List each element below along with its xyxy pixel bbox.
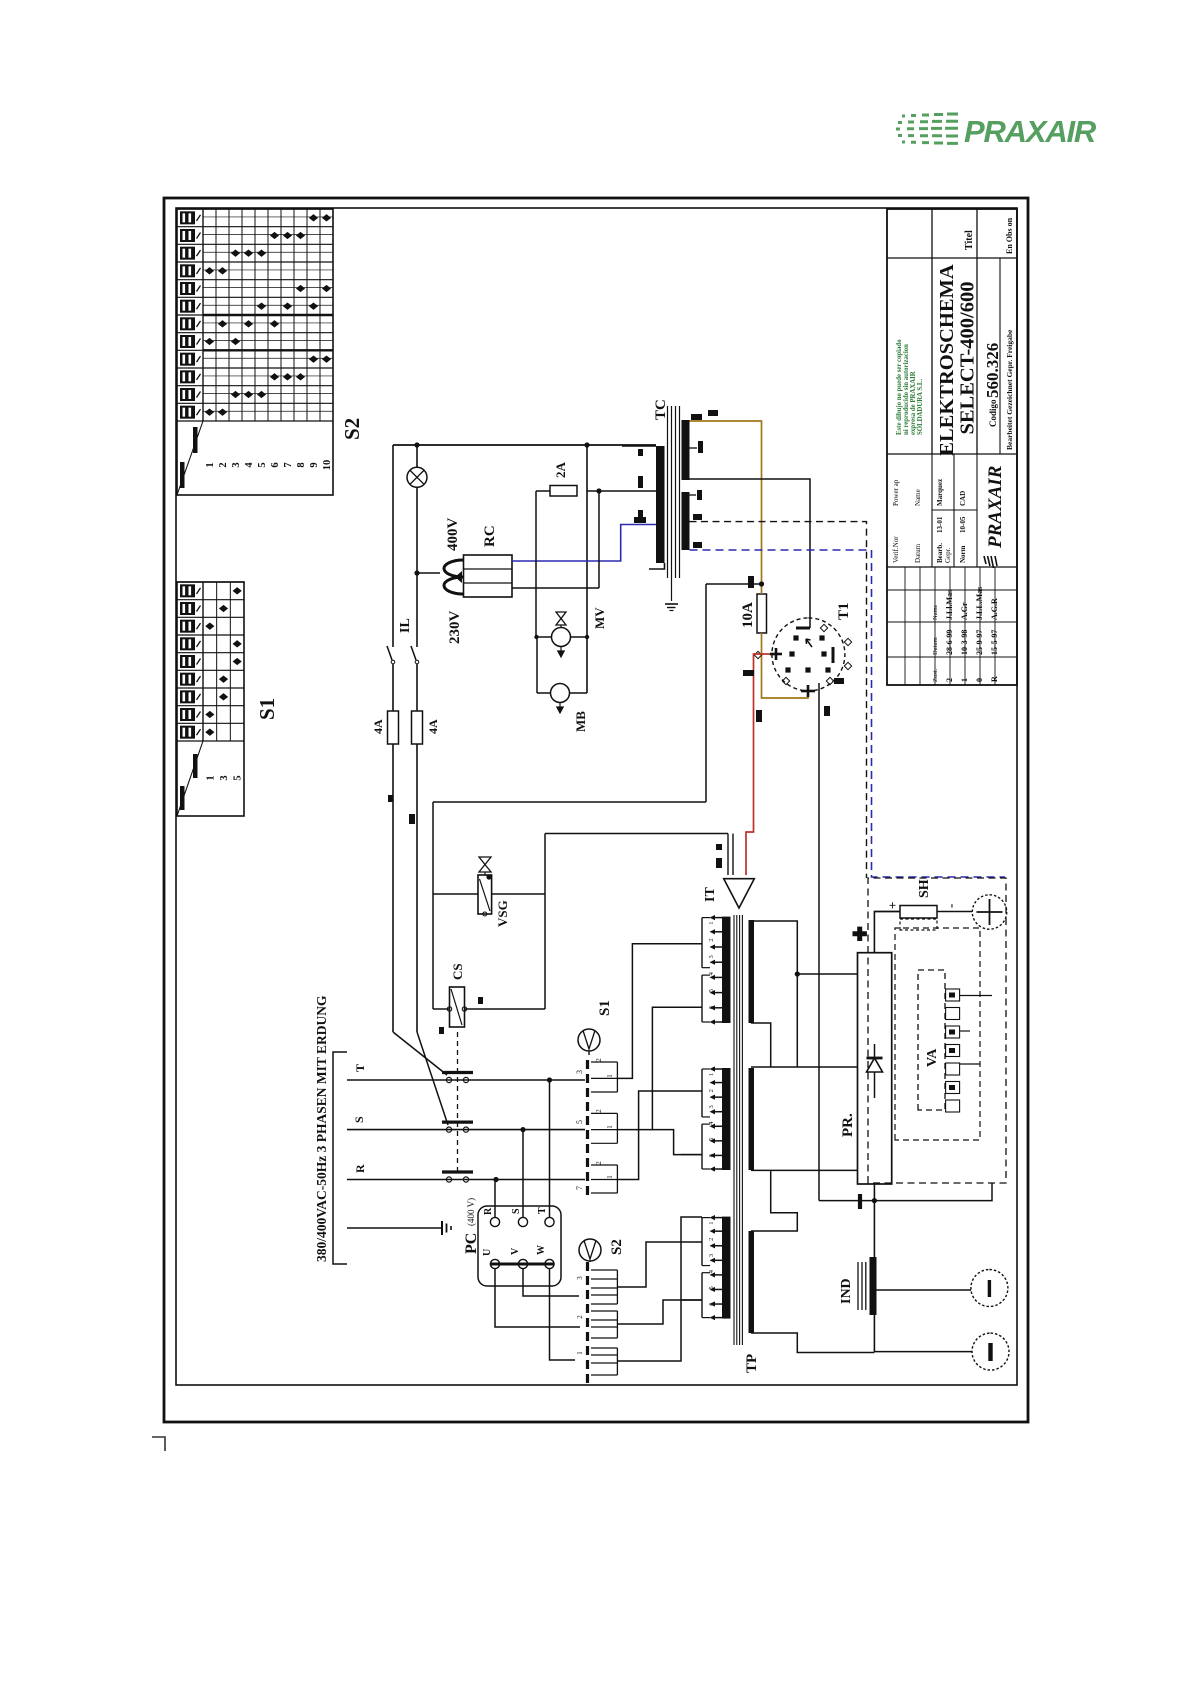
svg-text:13-01: 13-01 [936, 516, 944, 533]
svg-text:560.326: 560.326 [983, 343, 1002, 398]
svg-text:MV: MV [592, 607, 607, 629]
wire to IT vertical [545, 833, 728, 835]
svg-text:3: 3 [708, 1105, 715, 1108]
svg-text:Name: Name [932, 604, 939, 620]
svg-text:S1: S1 [255, 698, 279, 720]
wire through SH [874, 911, 900, 913]
wire 2A to MV line [536, 490, 550, 492]
selector S2 taps group3 [576, 1348, 617, 1375]
switch IL contacts [387, 646, 419, 664]
selector S1 taps phase T [575, 1058, 617, 1092]
svg-text:S1: S1 [597, 1000, 613, 1016]
wire diagonal tap T phase [393, 1032, 447, 1075]
svg-text:5: 5 [575, 1120, 584, 1124]
transformer RC coil arcs [444, 560, 463, 594]
wire link horiz sec2 [796, 974, 798, 1067]
svg-text:A.Gr: A.Gr [960, 602, 969, 620]
dashed enclosure inner [895, 928, 980, 1140]
selector S1 taps phase S [575, 1109, 617, 1144]
junction dots IL rail [414, 442, 419, 447]
connector PC body [478, 1206, 561, 1286]
wire VSG loop bottom to TC junction [705, 584, 707, 802]
S2 table contact symbols row [180, 211, 201, 418]
wire PC-W to S2 [550, 1269, 576, 1360]
svg-text:VSG: VSG [495, 900, 510, 927]
wire S2 out3 long [617, 1217, 702, 1361]
svg-text:Este dibujo no puede ser copia: Este dibujo no puede ser copiado [896, 339, 903, 435]
svg-text:TC: TC [653, 399, 669, 420]
dashed enclosure outer [868, 878, 1006, 1183]
transformer TP primary windings [681, 915, 731, 1320]
svg-text:Marquez: Marquez [936, 479, 944, 506]
title block green note [896, 339, 924, 435]
wire to terminal 2 [874, 1351, 972, 1353]
svg-text:CAD: CAD [959, 491, 967, 506]
wire PR output plus [874, 912, 900, 953]
wire T1 to minus rail [818, 683, 820, 1201]
titleblock PRAXAIR logo [984, 466, 1006, 568]
fuse 10A [757, 594, 767, 633]
svg-text:7: 7 [283, 462, 294, 467]
transformer TC primary winding [649, 446, 665, 569]
drawing outer border frame [164, 198, 1028, 1422]
svg-text:Datum: Datum [932, 637, 939, 655]
svg-text:S2: S2 [340, 418, 364, 440]
S2 table position marks (diamonds) [205, 214, 331, 416]
wire dashed black TC to VA box [690, 522, 867, 878]
T1 pins [754, 624, 851, 697]
svg-text:Bearbeitet Gezeichnet Gepr.: Bearbeitet Gezeichnet Gepr. Freigabe [1005, 329, 1014, 450]
TP primary tap numbers [708, 921, 715, 1305]
svg-text:25-9-97: 25-9-97 [975, 630, 984, 655]
svg-text:Codigo: Codigo [988, 399, 998, 427]
wire PR input 1 [797, 973, 857, 975]
S1 table contact symbols row [180, 584, 201, 738]
wire IL line lower [416, 744, 418, 1032]
svg-text:R: R [483, 1207, 494, 1215]
svg-text:Gepr.: Gepr. [944, 547, 952, 563]
titleblock small cells text [892, 479, 967, 563]
wire PC-U to S2 [495, 1269, 580, 1327]
transformer RC body [464, 555, 513, 597]
wire MB top link [536, 637, 538, 693]
paper corner crop mark bottom left [151, 1434, 171, 1459]
svg-text:Power ap: Power ap [892, 479, 900, 506]
wire sec2 bottom to PR input3 [751, 1169, 858, 1171]
svg-text:1: 1 [606, 1074, 614, 1078]
revision rows text [932, 587, 999, 682]
selector S2 shaft dashed [586, 1262, 589, 1383]
PC pin labels [482, 1207, 548, 1256]
wire sec2-sec3 series link [751, 1170, 797, 1231]
wire S2 out1 to TP group3 A [617, 1242, 702, 1287]
svg-text:Zust.: Zust. [932, 668, 939, 682]
schematic sheet (landscape drawing rotated 90 deg CCW) [160, 196, 1032, 1433]
wire PR output minus [873, 1184, 875, 1201]
PRAXAIR company logo (green, top right) [886, 104, 1116, 156]
svg-text:3: 3 [231, 462, 242, 467]
display VA dashed box [918, 970, 945, 1110]
svg-text:T1: T1 [836, 602, 852, 620]
svg-text:1: 1 [708, 1073, 715, 1076]
wire dashed blue TC to SH [690, 550, 1006, 877]
wire 230V tap vertical [587, 490, 656, 492]
contactor CS main contacts [347, 1073, 473, 1183]
supply bracket [333, 1052, 347, 1264]
TC primary tap 230V [622, 490, 656, 492]
TC sec1 tiny labels [691, 414, 702, 420]
svg-text:230V: 230V [447, 611, 463, 645]
title block grid [887, 209, 1017, 685]
rectifier PR body [858, 953, 892, 1184]
svg-text:Bearb.: Bearb. [936, 543, 944, 563]
thermal switch VSG body [478, 874, 492, 916]
svg-text:2: 2 [708, 938, 715, 941]
shunt SH body [900, 906, 937, 919]
selector S1 taps phase R [575, 1161, 617, 1193]
fuse 2A [550, 486, 577, 497]
wire orange TC to 10A fuse [690, 421, 762, 584]
svg-text:6: 6 [270, 462, 281, 467]
svg-text:1: 1 [576, 1351, 584, 1355]
earth wire [347, 1227, 442, 1229]
fuse 4A lower [412, 711, 423, 744]
TC primary tap 400V [622, 445, 656, 447]
tiny labels red wire [743, 670, 754, 676]
svg-text:A.G.R: A.G.R [990, 598, 999, 620]
svg-text:5: 5 [708, 1286, 715, 1289]
PC pins right column [490, 1217, 554, 1226]
svg-text:3: 3 [219, 775, 230, 780]
wire phase T vertical [347, 1079, 585, 1081]
wire rail 400V vertical [393, 444, 656, 446]
selector S2 taps group2 [576, 1311, 617, 1338]
wire S1 S output to TP group1 B [617, 1007, 702, 1129]
svg-text:2: 2 [595, 1109, 603, 1113]
svg-text:3: 3 [708, 1254, 715, 1257]
wire IT inputs black pair [727, 834, 729, 876]
svg-text:2A: 2A [553, 462, 568, 479]
svg-text:4: 4 [244, 462, 255, 468]
svg-text:Datum: Datum [914, 543, 922, 563]
wire VSG branch vertical [433, 893, 478, 895]
terminal plus circle [972, 895, 1006, 929]
wire sec1-sec2 series link [751, 1023, 771, 1067]
svg-text:2: 2 [945, 678, 954, 682]
motor pump MB [537, 684, 587, 714]
svg-text:Verif.Nor: Verif.Nor [892, 536, 900, 563]
junction dot orange-black [759, 581, 764, 586]
svg-text:SELECT-400/600: SELECT-400/600 [957, 281, 979, 434]
svg-text:-: - [943, 904, 958, 908]
contactor CS linkage dashed [457, 1030, 459, 1172]
selector S1 shaft dashed [586, 1055, 589, 1195]
transformer TC secondary 2 [682, 492, 690, 550]
output terminal circle 2 [972, 1333, 1009, 1370]
wire minus to IND [873, 1315, 875, 1352]
svg-text:Name: Name [914, 489, 922, 506]
wire IL line upper [392, 744, 394, 1032]
svg-text:VA: VA [925, 1048, 940, 1067]
svg-text:Norm: Norm [959, 545, 967, 563]
wire phase R vertical [347, 1179, 585, 1181]
wire S1 R output to TP group2 A [617, 1091, 702, 1180]
svg-text:2: 2 [595, 1058, 603, 1062]
wire diagonal tap S phase [417, 1032, 448, 1125]
wire RC black output [512, 587, 599, 589]
wire S2 out2 to TP group3 B [617, 1300, 702, 1324]
svg-text:400V: 400V [445, 518, 461, 552]
svg-text:ELEKTROSCHEMA: ELEKTROSCHEMA [936, 264, 958, 456]
transformer TP secondary windings [749, 920, 755, 1333]
svg-text:4: 4 [708, 1121, 715, 1125]
wire minus rail to VA box [874, 1183, 992, 1201]
svg-text:4A: 4A [371, 719, 385, 734]
wire PC-R to phase R [494, 1180, 496, 1218]
wire CS-VSG bottom horizontal [544, 834, 546, 1010]
svg-text:1: 1 [606, 1125, 614, 1129]
tiny labels TC primary [638, 449, 643, 456]
switch S1 contact table [177, 582, 244, 816]
shunt SH dashed twin [900, 919, 937, 930]
svg-text:V: V [510, 1247, 521, 1255]
svg-text:(400 V): (400 V) [466, 1198, 476, 1226]
svg-text:S2: S2 [609, 1239, 625, 1255]
junction dot sec1 out [795, 971, 800, 976]
junction dot rail-MV [584, 442, 589, 447]
motor fan MV [534, 612, 589, 657]
VA wires to enclosure [960, 995, 992, 997]
svg-text:S: S [352, 1116, 366, 1123]
svg-text:CS: CS [450, 963, 465, 980]
wire RC blue output [512, 525, 656, 562]
svg-text:En Obs on: En Obs on [1005, 217, 1014, 254]
svg-text:0: 0 [975, 678, 984, 682]
inductor IND bar [870, 1257, 877, 1315]
svg-text:9: 9 [309, 462, 320, 467]
junction dot 230V line [596, 488, 601, 493]
svg-text:1: 1 [960, 678, 969, 682]
svg-text:MB: MB [573, 711, 588, 732]
wire RC tap [417, 572, 440, 574]
svg-text:U: U [482, 1249, 493, 1256]
svg-text:J.Ll.Mas: J.Ll.Mas [945, 590, 954, 620]
svg-text:1: 1 [205, 462, 216, 467]
svg-text:SOLDADURA S.L.: SOLDADURA S.L. [917, 379, 924, 435]
svg-text:1: 1 [708, 1221, 715, 1224]
TC core earth [665, 601, 678, 611]
svg-text:SH: SH [917, 879, 932, 898]
svg-text:5: 5 [708, 1138, 715, 1141]
tiny labels T1 area [834, 678, 844, 684]
selector S2 taps group1 [576, 1270, 617, 1304]
transformer TP core [734, 915, 742, 1345]
svg-text:RC: RC [482, 525, 498, 547]
title block outer [887, 209, 1017, 685]
lamp IL [407, 467, 427, 487]
contactor coil CS [439, 987, 483, 1034]
svg-text:Titel: Titel [964, 230, 975, 250]
tiny label near 10A [748, 576, 754, 588]
svg-text:PRAXAIR: PRAXAIR [985, 466, 1006, 549]
selector S1 knob [578, 1029, 600, 1055]
svg-text:380/400VAC-50Hz 3 PHASEN MIT E: 380/400VAC-50Hz 3 PHASEN MIT ERDUNG [314, 995, 329, 1262]
svg-text:2: 2 [708, 1089, 715, 1092]
wire TP sec1 output top [751, 921, 797, 974]
drawing inner border frame [176, 208, 1017, 1385]
thick polarity tick on minus wire [858, 1194, 862, 1209]
svg-text:5: 5 [708, 989, 715, 992]
svg-text:10A: 10A [740, 602, 756, 628]
VSG bowtie symbol [479, 857, 491, 875]
svg-text:3: 3 [575, 1070, 584, 1074]
svg-text:IND: IND [839, 1278, 854, 1304]
svg-text:W: W [536, 1245, 547, 1255]
svg-text:5: 5 [233, 775, 244, 780]
svg-text:R: R [353, 1164, 367, 1173]
svg-text:2: 2 [218, 462, 229, 467]
TC sec2 stubs tiny labels [690, 494, 697, 496]
svg-text:4: 4 [708, 971, 715, 975]
svg-text:10-05: 10-05 [959, 516, 967, 533]
svg-text:1: 1 [606, 1175, 614, 1179]
switch S2 contact table [177, 209, 333, 495]
PC pins left column with bus bar [490, 1259, 554, 1268]
transformer TC secondary 1 [682, 420, 690, 480]
svg-text:+: + [885, 902, 900, 909]
wire phase S vertical [347, 1129, 585, 1131]
svg-text:PC: PC [463, 1233, 480, 1254]
sensor IT triangle [724, 879, 755, 908]
svg-text:2: 2 [595, 1161, 603, 1165]
svg-text:IL: IL [398, 618, 413, 633]
diode symbol in PR [867, 1044, 883, 1098]
svg-text:10: 10 [322, 460, 333, 471]
wire S1 T output to TP group1 A [617, 944, 702, 1079]
tiny wire labels left of fuses [409, 814, 415, 824]
fuse 4A upper [388, 711, 399, 744]
junction dot minus [872, 1198, 877, 1203]
svg-text:4A: 4A [426, 719, 440, 734]
rotary switch T1 dashed circle [772, 618, 845, 691]
wire red T1 to IT [746, 654, 770, 875]
wire black TC sec1 to T1 [690, 479, 811, 628]
svg-text:3: 3 [708, 955, 715, 958]
wire VSG loop right vertical [433, 801, 706, 803]
wire VSG loop top horizontal [432, 802, 434, 1009]
wire PC-S to phase S [522, 1130, 524, 1218]
svg-text:5: 5 [257, 462, 268, 467]
svg-text:PRAXAIR: PRAXAIR [964, 114, 1097, 149]
wire CS coil bottom down [465, 1008, 546, 1010]
svg-text:R: R [990, 676, 999, 682]
svg-text:S: S [511, 1208, 522, 1214]
TC sec1 mid stub [690, 447, 698, 449]
svg-text:IT: IT [703, 887, 718, 902]
svg-text:15-5-97: 15-5-97 [990, 630, 999, 655]
svg-text:28-6-99: 28-6-99 [945, 630, 954, 655]
svg-text:T: T [537, 1207, 548, 1214]
svg-text:3: 3 [576, 1276, 584, 1280]
wire S1 S output to TP group2 B [652, 1130, 702, 1155]
svg-text:7: 7 [575, 1186, 584, 1190]
output terminal circle 1 [971, 1270, 1008, 1307]
svg-text:TP: TP [744, 1354, 760, 1373]
wire sec2 top to PR input 2 [751, 1066, 858, 1068]
svg-text:10-3-98: 10-3-98 [960, 630, 969, 655]
svg-text:8: 8 [296, 462, 307, 467]
inductor IND core lines [857, 1262, 859, 1310]
wire orange fuse to T1 [762, 633, 809, 698]
wire MV-MB horizontal y427 [586, 445, 588, 693]
tiny label on blue wire [634, 517, 646, 523]
tiny labels IT input [716, 858, 722, 868]
svg-text:2: 2 [576, 1315, 584, 1319]
svg-text:4: 4 [708, 1269, 715, 1273]
wire IND tap to terminal 1 [877, 1289, 972, 1291]
VA connector teeth [946, 989, 960, 1112]
wire CS coil top to loop [433, 1008, 450, 1010]
svg-text:T: T [353, 1064, 367, 1072]
transformer TC core [668, 406, 680, 601]
wire PC-V to S2 [523, 1269, 579, 1296]
svg-text:2: 2 [708, 1238, 715, 1241]
wire PC-T to phase T [549, 1080, 551, 1217]
svg-text:PR.: PR. [840, 1113, 856, 1137]
wire sec3 bottom out [751, 1333, 874, 1353]
svg-text:J.LL.Mas: J.LL.Mas [975, 587, 984, 620]
svg-text:expresa de PRAXAIR: expresa de PRAXAIR [910, 371, 917, 435]
svg-text:1: 1 [205, 775, 216, 780]
plus symbol bold [853, 927, 867, 941]
svg-text:ni reproducido sin autorizacio: ni reproducido sin autorizacion [903, 344, 910, 435]
selector S2 knob [579, 1239, 601, 1262]
S1 table position marks (diamonds) [205, 587, 242, 736]
svg-text:1: 1 [708, 921, 715, 924]
earth ground symbol [441, 1221, 443, 1235]
